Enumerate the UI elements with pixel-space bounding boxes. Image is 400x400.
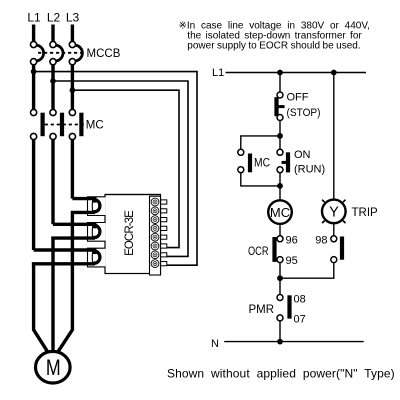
pushbutton OFF (STOP) NC — [274, 92, 284, 121]
node L1 (control) label — [212, 67, 224, 79]
wire loop3 exit to motor — [34, 262, 48, 351]
svg-text:08: 08 — [294, 293, 306, 305]
junction control L1 / OFF branch — [277, 70, 283, 76]
EOCR-3E relay body U1 — [105, 195, 161, 276]
EOCR-3E label — [124, 210, 136, 256]
wire L2 MCCB to MC — [51, 65, 54, 109]
caption — [167, 367, 395, 381]
junction OFF / MC aux / ON — [277, 133, 283, 139]
wire MC coil to 96 — [279, 224, 281, 236]
junction N — [277, 339, 283, 345]
wire L3 MCCB to MC — [71, 65, 74, 109]
wire 95 to junction — [279, 263, 281, 279]
wire control L1 bus — [226, 72, 366, 74]
wire N bus — [224, 341, 364, 343]
svg-text:PMR: PMR — [248, 304, 274, 316]
wire L3 drop to MCCB — [71, 25, 74, 42]
svg-text:L3: L3 — [66, 11, 80, 25]
MC label — [86, 120, 104, 132]
svg-text:TRIP: TRIP — [352, 207, 379, 219]
PMR label — [248, 304, 274, 316]
wire EOCR supply from L1 — [34, 72, 197, 266]
motor M — [36, 351, 71, 383]
svg-text:EOCR-3E: EOCR-3E — [124, 210, 136, 256]
contact OCR NC 96-95 — [272, 236, 283, 263]
wire L1 MC to loop3 — [32, 140, 35, 250]
EOCR terminal screws — [151, 198, 159, 267]
svg-text:N: N — [211, 338, 219, 350]
svg-text:(STOP): (STOP) — [287, 107, 321, 119]
svg-text:98: 98 — [315, 235, 327, 247]
svg-text:power supply to EOCR should be: power supply to EOCR should be used. — [187, 41, 360, 52]
svg-text:OFF: OFF — [287, 92, 309, 104]
svg-text:(RUN): (RUN) — [294, 163, 325, 175]
MCCB label — [87, 48, 121, 60]
wire PMR to N — [279, 321, 281, 342]
MC aux label — [254, 157, 270, 169]
(STOP) label — [287, 107, 321, 119]
OCR label — [248, 246, 269, 258]
terminal 98 label — [315, 235, 327, 247]
svg-text:MCCB: MCCB — [87, 48, 121, 60]
breaker MCCB pole 3 — [69, 41, 82, 64]
wire MC aux to junction — [241, 173, 280, 186]
wire OFF to junction — [279, 121, 281, 136]
terminal 95 label — [286, 255, 298, 267]
ON label — [294, 149, 311, 161]
wire L1 drop to MCCB — [32, 25, 35, 42]
junction on L3 — [70, 87, 76, 93]
EOCR terminal hooks — [161, 200, 167, 266]
svg-text:Y: Y — [329, 205, 339, 221]
lamp Y TRIP — [322, 200, 346, 224]
contact 98 NO — [331, 236, 344, 263]
svg-text:07: 07 — [294, 314, 306, 326]
wire EOCR supply from L2 — [53, 81, 188, 256]
wire 98 contact to junction — [280, 263, 334, 279]
wire junction to MC coil — [279, 186, 281, 200]
svg-text:ON: ON — [294, 149, 311, 161]
junction below OCR — [277, 275, 283, 281]
svg-text:95: 95 — [286, 255, 298, 267]
CT window notch 3 — [88, 248, 106, 267]
wire to MC aux branch — [241, 136, 280, 149]
svg-text:96: 96 — [286, 235, 298, 247]
CT window notch 1 — [88, 197, 106, 216]
wire Y lamp to 98 contact — [333, 223, 335, 236]
svg-text:Shown without applied power("N: Shown without applied power("N" Type) — [167, 367, 395, 381]
terminal 07 label — [294, 314, 306, 326]
terminal 96 label — [286, 235, 298, 247]
note text — [179, 20, 370, 51]
node L3 label — [66, 11, 80, 25]
wire L3 MC to loop1 — [71, 140, 74, 199]
node L2 label — [47, 11, 61, 25]
wire L1 MCCB to MC — [32, 65, 35, 109]
svg-text:OCR: OCR — [248, 246, 269, 258]
svg-text:MC: MC — [270, 205, 290, 220]
wire L2 drop to MCCB — [51, 25, 54, 42]
CT loop 1 (L3 phase) — [71, 199, 100, 213]
svg-text:L1: L1 — [27, 11, 41, 25]
contactor MC pole 2 — [50, 109, 64, 139]
junction control L1 / TRIP branch — [331, 70, 337, 76]
junction above MC coil — [277, 183, 283, 189]
wire loop1 exit to motor — [58, 211, 72, 351]
CT loop 3 (L1 phase) — [32, 250, 100, 264]
junction on L1 — [31, 69, 37, 75]
svg-text:L1: L1 — [212, 67, 224, 79]
breaker MCCB pole 2 — [50, 41, 63, 64]
junction on L2 — [50, 78, 56, 84]
node N label — [211, 338, 219, 350]
svg-text:M: M — [46, 355, 61, 380]
node L1 label — [27, 11, 41, 25]
MC linkage dashed — [45, 124, 85, 126]
coil MC — [268, 200, 292, 224]
contact PMR NO 08-07 — [277, 295, 292, 321]
wire ON to junction — [279, 173, 281, 186]
(RUN) label — [294, 163, 325, 175]
contactor MC pole 3 — [69, 109, 83, 139]
pushbutton ON (RUN) NO — [277, 149, 290, 172]
svg-text:L2: L2 — [47, 11, 61, 25]
TRIP label — [352, 207, 379, 219]
wire loop2 exit to motor — [51, 237, 54, 353]
wire L2 MC to loop2 — [51, 140, 54, 225]
contact MC auxiliary NO — [238, 149, 252, 172]
svg-text:MC: MC — [86, 120, 104, 132]
wire L1 to OFF button — [279, 73, 281, 93]
wire junction to PMR — [279, 278, 281, 294]
OFF label — [287, 92, 309, 104]
CT window notch 2 — [88, 223, 106, 242]
contactor MC pole 1 — [30, 109, 44, 139]
breaker MCCB pole 1 — [30, 41, 43, 64]
MCCB linkage dashed — [38, 52, 85, 54]
wire TRIP branch from L1 — [333, 73, 335, 200]
terminal 08 label — [294, 293, 306, 305]
wire to ON button — [279, 136, 281, 149]
svg-text:MC: MC — [254, 157, 270, 169]
CT loop 2 (L2 phase) — [51, 224, 100, 238]
wire EOCR supply from L3 — [72, 90, 179, 247]
